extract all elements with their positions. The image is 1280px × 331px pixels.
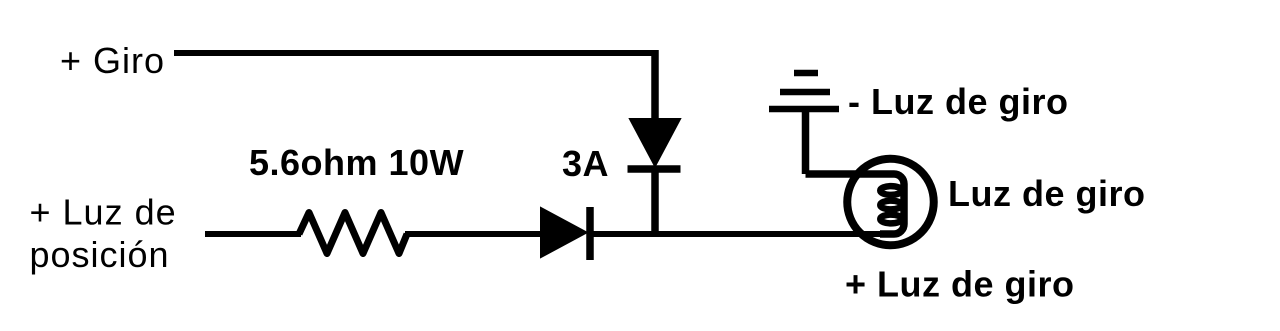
wire vertical drop from corner to diode D2 anode — [651, 50, 659, 121]
svg-text:posición: posición — [30, 234, 170, 275]
wire bottom rail left segment — [205, 231, 301, 237]
wire bottom rail right segment to lamp — [590, 231, 893, 237]
lamp coil lead: top lead, right hook, joins bottom rail — [806, 174, 905, 234]
diode D2 (3A) triangle pointing down — [630, 119, 680, 166]
diode D1 cathode bar vertical — [586, 207, 594, 260]
svg-text:+ Luz de giro: + Luz de giro — [845, 264, 1075, 305]
svg-text:- Luz de giro: - Luz de giro — [848, 81, 1068, 122]
diode D2 cathode bar — [628, 165, 681, 173]
svg-text:+ Giro: + Giro — [60, 40, 165, 81]
lamp coil ellipse 2 — [880, 201, 902, 210]
svg-text:+ Luz de: + Luz de — [30, 192, 177, 233]
resistor R1 zigzag — [299, 213, 407, 254]
wire bottom rail middle segment — [405, 231, 543, 237]
battery negative terminal short top bar — [794, 70, 818, 77]
wire from D2 cathode down to bottom rail — [651, 172, 659, 234]
lamp coil ellipse 1 — [880, 186, 902, 195]
svg-text:3A: 3A — [562, 143, 609, 184]
wire stem from negative terminal down — [802, 109, 810, 174]
lamp outer circle — [847, 159, 934, 246]
svg-text:Luz de giro: Luz de giro — [948, 173, 1146, 214]
svg-text:5.6ohm 10W: 5.6ohm 10W — [249, 142, 464, 183]
lamp coil ellipse 3 — [880, 215, 902, 224]
wire top horizontal from + Giro to corner — [174, 50, 655, 56]
battery negative terminal long bottom bar — [769, 106, 839, 113]
diode D1 triangle pointing right — [541, 208, 587, 257]
battery negative terminal middle bar — [780, 89, 830, 96]
